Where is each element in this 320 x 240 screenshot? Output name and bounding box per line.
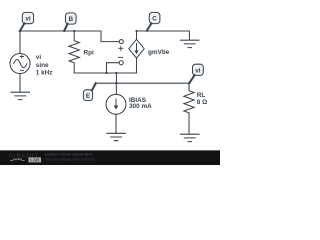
VCCS minus polarity mark — [118, 56, 122, 58]
ground below RL — [180, 134, 199, 141]
resistor Rpi — [69, 31, 79, 73]
wire: emitter to load rail (node vl) — [96, 82, 190, 84]
svg-text:C: C — [152, 16, 157, 23]
svg-text:8 Ω: 8 Ω — [197, 99, 207, 106]
svg-text:LAB: LAB — [30, 158, 39, 163]
svg-text:B: B — [68, 16, 73, 23]
svg-text:gmVbe: gmVbe — [148, 49, 170, 56]
Rpi value label — [84, 50, 95, 57]
node flag vl — [188, 64, 203, 84]
svg-text:RL: RL — [197, 92, 206, 99]
wire: I1 bottom lead to ground — [115, 114, 117, 133]
node flag E — [83, 82, 96, 101]
svg-text:E: E — [86, 93, 91, 100]
svg-text:sine: sine — [36, 62, 49, 69]
junction vertical on vl rail — [115, 82, 117, 84]
wire: - sense terminal to E rail — [107, 63, 120, 73]
node flag C — [146, 12, 160, 31]
ground below I1 — [107, 133, 126, 140]
current source I1 (iBIAS) — [106, 94, 126, 114]
VCCS + sense terminal circle — [119, 40, 123, 44]
node flag vi — [19, 12, 34, 32]
ground below V1 — [11, 92, 30, 99]
svg-text:vl: vl — [195, 67, 201, 74]
wire: B rail from V1 top to corner — [20, 30, 101, 32]
I1 label: IBIAS / 300 mA — [129, 97, 152, 110]
node flag B — [63, 13, 76, 32]
wire: VCCS bottom lead to E rail — [136, 58, 138, 73]
voltage source V1 (vi sine 1 kHz) — [10, 54, 30, 74]
watermark bar — [0, 150, 220, 165]
ground top right on C rail — [180, 31, 199, 48]
svg-text:vi: vi — [36, 54, 42, 61]
svg-text:http://circuitlab.com/c/9xnhp9: http://circuitlab.com/c/9xnhp9 — [45, 157, 95, 162]
voltage source V1 (vi) top lead — [19, 31, 21, 54]
CircuitLab logo — [9, 153, 41, 162]
wire: corner down to VCCS + sense terminal — [101, 31, 119, 42]
VCCS plus polarity mark — [119, 46, 123, 50]
wire: E rail (node E) — [74, 72, 136, 74]
wire: C rail from VCCS top to ground — [137, 31, 190, 40]
wire: vertical from E rail through vl rail to I1 — [115, 73, 117, 94]
svg-text:vi: vi — [25, 16, 31, 23]
wire: V1 bottom lead to ground — [19, 74, 21, 93]
svg-text:300 mA: 300 mA — [129, 103, 152, 110]
junction at Rpi top — [73, 30, 75, 32]
VCCS - sense terminal circle — [119, 61, 123, 65]
watermark caption text — [45, 152, 95, 162]
svg-text:Rpi: Rpi — [84, 50, 95, 57]
VCCS G1 diamond (gmVbe) — [129, 39, 144, 58]
junction at VCCS top on C rail — [135, 30, 137, 32]
resistor RL — [184, 83, 194, 134]
svg-text:1 kHz: 1 kHz — [36, 70, 53, 77]
G1 label gmVbe — [148, 49, 170, 56]
junction - sense on E rail — [105, 72, 107, 74]
junction vertical on E rail — [115, 72, 117, 74]
RL labels: RL / 8 ohm — [197, 92, 207, 106]
V1 label: vi / sine / 1 kHz — [36, 54, 53, 76]
